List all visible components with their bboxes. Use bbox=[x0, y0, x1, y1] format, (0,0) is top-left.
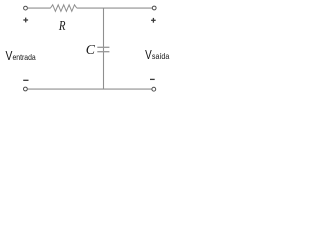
terminal bottom-right bbox=[152, 87, 156, 91]
wire bottom rail bbox=[28, 88, 152, 90]
svg-text:C: C bbox=[86, 42, 96, 57]
polarity minus bottom-left bbox=[23, 79, 28, 81]
terminal top-left bbox=[24, 6, 28, 10]
wire top rail: terminal to resistor bbox=[28, 7, 51, 9]
wire capacitor branch (continuous) bbox=[103, 8, 105, 89]
wire top rail: resistor to top-right terminal, through junction bbox=[77, 7, 152, 9]
net label V saida bbox=[145, 47, 169, 62]
polarity plus top-right bbox=[151, 18, 156, 23]
capacitor C1 top plate bbox=[97, 46, 109, 48]
svg-text:saída: saída bbox=[152, 51, 170, 61]
resistor R1 zigzag bbox=[50, 5, 76, 12]
terminal bottom-left bbox=[24, 87, 28, 91]
svg-text:entrada: entrada bbox=[13, 52, 36, 62]
polarity plus top-left bbox=[23, 18, 28, 23]
svg-text:R: R bbox=[58, 18, 66, 33]
capacitor C1 bottom plate bbox=[97, 51, 109, 53]
net label V entrada bbox=[6, 48, 36, 63]
polarity minus bottom-right bbox=[150, 78, 155, 80]
terminal top-right bbox=[152, 6, 156, 10]
